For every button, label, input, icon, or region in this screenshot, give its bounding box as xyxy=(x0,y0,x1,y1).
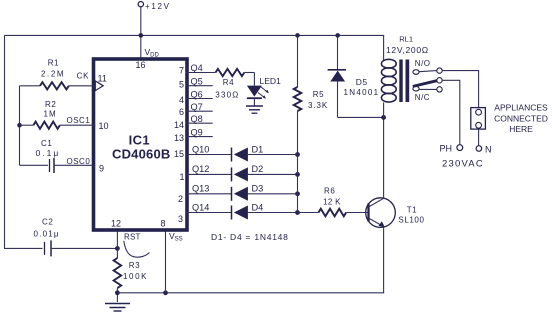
clock input triangle pin 11 xyxy=(77,71,107,90)
svg-text:10: 10 xyxy=(99,121,109,131)
svg-text:C1: C1 xyxy=(41,139,52,148)
capacitor C1 0.1u xyxy=(20,139,96,173)
svg-text:CK: CK xyxy=(77,71,90,80)
svg-text:1M: 1M xyxy=(44,110,57,119)
resistor R6 12K xyxy=(298,186,369,216)
svg-text:T1: T1 xyxy=(407,205,417,214)
capacitor C2 0.01u xyxy=(34,218,118,257)
node junction D1 bus xyxy=(295,152,300,157)
pin Q5 stub xyxy=(179,77,213,90)
pin Q14 wire xyxy=(178,202,232,224)
wire bus from rail to R5 xyxy=(297,35,299,87)
wire top supply rail xyxy=(5,34,385,36)
svg-text:R3: R3 xyxy=(129,261,140,270)
svg-text:N: N xyxy=(485,145,492,155)
node junction R3 bottom / ground rail xyxy=(115,290,120,295)
svg-text:APPLIANCES: APPLIANCES xyxy=(494,103,548,113)
node junction D2 bus xyxy=(295,172,300,177)
svg-text:OSC0: OSC0 xyxy=(67,157,91,166)
svg-text:R6: R6 xyxy=(324,186,335,195)
appliance socket box xyxy=(471,108,486,130)
svg-text:12V,200Ω: 12V,200Ω xyxy=(386,45,429,55)
node junction R5 bus on rail xyxy=(295,33,300,38)
svg-text:RST: RST xyxy=(124,233,141,242)
terminal N xyxy=(476,145,491,155)
node junction coil bottom xyxy=(381,115,386,120)
node junction D5 on rail xyxy=(335,33,340,38)
svg-text:CD4060B: CD4060B xyxy=(112,147,171,162)
wire bottom ground rail xyxy=(117,292,384,294)
svg-text:0.1μ: 0.1μ xyxy=(36,148,61,158)
svg-text:11: 11 xyxy=(98,74,107,84)
node junction C2 / RST xyxy=(115,246,120,251)
wire RST pin 12 down through junction to R3 xyxy=(116,230,118,258)
resistor R2 1M xyxy=(20,100,96,129)
pin Q6 stub xyxy=(179,89,213,105)
wire Vss pin 8 down to bottom rail xyxy=(165,230,167,293)
wire bus from R5 down to D4 row xyxy=(297,111,299,213)
wire socket to N terminal xyxy=(478,129,480,146)
ground symbol under R3 xyxy=(105,304,130,312)
svg-text:2: 2 xyxy=(178,194,183,204)
svg-text:SL100: SL100 xyxy=(398,215,424,224)
svg-text:230VAC: 230VAC xyxy=(442,159,484,170)
svg-text:4: 4 xyxy=(179,95,184,105)
svg-text:3.3K: 3.3K xyxy=(308,101,328,110)
pin Q8 stub xyxy=(174,114,213,130)
svg-text:D1- D4 = 1N4148: D1- D4 = 1N4148 xyxy=(211,232,289,242)
wire +12V terminal down to Vdd pin 16 xyxy=(140,7,142,59)
resistor R1 2.2M xyxy=(20,58,95,89)
wire R3 to bottom junction xyxy=(116,288,118,302)
wire R4 down to LED1 xyxy=(253,73,255,86)
node junction Vss on bottom rail xyxy=(163,290,168,295)
wire D5 bottom to coil/collector line xyxy=(338,116,385,118)
svg-text:D1: D1 xyxy=(252,144,264,154)
relay contact N/C xyxy=(413,86,442,101)
svg-text:R1: R1 xyxy=(48,58,59,67)
svg-text:1N4001: 1N4001 xyxy=(344,88,380,97)
svg-text:D5: D5 xyxy=(356,77,368,87)
svg-text:C2: C2 xyxy=(42,218,53,227)
resistor R5 3.3K xyxy=(294,87,328,111)
pin Q13 wire xyxy=(178,184,232,204)
svg-text:330Ω: 330Ω xyxy=(215,90,239,99)
pin Q7 stub xyxy=(179,102,213,117)
diode D2 xyxy=(232,164,298,182)
svg-text:Q13: Q13 xyxy=(192,184,209,194)
svg-text:R2: R2 xyxy=(45,100,56,109)
svg-text:Q6: Q6 xyxy=(191,89,203,99)
svg-text:15: 15 xyxy=(174,149,184,159)
wire N/O contact to appliance box xyxy=(442,71,478,108)
svg-text:Q9: Q9 xyxy=(191,127,203,137)
svg-text:D3: D3 xyxy=(252,184,264,194)
svg-text:8: 8 xyxy=(161,219,166,229)
+12V supply terminal xyxy=(138,1,171,10)
node junction D3 bus xyxy=(295,191,300,196)
diode D5 1N4001 xyxy=(328,35,380,117)
relay armature pole xyxy=(413,78,442,87)
svg-text:2.2M: 2.2M xyxy=(41,69,65,78)
wire left side vertical down to C2 xyxy=(5,35,43,248)
pin Q10 wire xyxy=(174,144,232,159)
ground under LED1 xyxy=(246,106,263,113)
svg-text:100K: 100K xyxy=(123,272,148,281)
wire R1/R2/C1 left vertical xyxy=(19,86,21,166)
svg-text:D2: D2 xyxy=(252,164,264,174)
diode D4 xyxy=(232,202,298,219)
svg-text:7: 7 xyxy=(179,66,184,76)
svg-text:Q5: Q5 xyxy=(191,77,203,87)
svg-text:3: 3 xyxy=(178,214,183,224)
svg-text:N/O: N/O xyxy=(415,59,431,68)
diode D3 xyxy=(232,184,298,201)
svg-text:N/C: N/C xyxy=(415,93,430,102)
svg-text:5: 5 xyxy=(179,80,184,90)
relay RL1 coil xyxy=(381,34,428,117)
svg-text:12: 12 xyxy=(111,219,121,229)
svg-text:Q10: Q10 xyxy=(192,144,209,154)
svg-text:13: 13 xyxy=(174,133,184,143)
op IC1 CD4060B body xyxy=(94,59,188,230)
svg-text:D4: D4 xyxy=(252,202,264,212)
svg-text:1: 1 xyxy=(179,172,184,182)
svg-text:CONNECTED: CONNECTED xyxy=(494,113,548,123)
svg-text:PH: PH xyxy=(440,144,453,154)
wire LED1 to ground xyxy=(253,98,255,106)
relay core bars xyxy=(399,60,409,103)
svg-text:Q7: Q7 xyxy=(191,102,203,112)
svg-text:9: 9 xyxy=(99,164,104,174)
svg-text:RL1: RL1 xyxy=(399,34,413,43)
svg-text:16: 16 xyxy=(136,60,146,70)
resistor R4 330ohm xyxy=(215,69,254,99)
label appliances connected here xyxy=(494,103,548,134)
svg-text:LED1: LED1 xyxy=(260,76,282,86)
node junction +12V on rail xyxy=(139,33,144,38)
svg-text:Q12: Q12 xyxy=(192,164,209,174)
wire collector up to relay coil bottom xyxy=(383,117,385,198)
svg-text:Q14: Q14 xyxy=(192,202,209,212)
terminal PH xyxy=(440,144,463,154)
svg-text:Q8: Q8 xyxy=(191,114,203,124)
relay contact N/O xyxy=(413,59,442,74)
svg-text:6: 6 xyxy=(179,107,184,117)
svg-text:Q4: Q4 xyxy=(191,63,203,73)
svg-text:12 K: 12 K xyxy=(323,198,341,207)
svg-text:OSC1: OSC1 xyxy=(67,116,91,125)
svg-text:IC1: IC1 xyxy=(129,132,150,147)
wire emitter down to bottom rail xyxy=(383,227,385,293)
reset pulse curve mark xyxy=(124,241,150,257)
svg-text:0.01μ: 0.01μ xyxy=(34,230,60,239)
LED1 xyxy=(247,76,281,99)
diode D1 xyxy=(232,144,298,161)
svg-text:+12V: +12V xyxy=(145,2,171,11)
node junction D4 bus R6 xyxy=(295,210,300,215)
svg-text:14: 14 xyxy=(174,120,184,130)
resistor R3 100K xyxy=(114,258,148,288)
node junction R2 xyxy=(17,123,22,128)
transistor T1 SL100 xyxy=(366,198,425,228)
svg-text:R4: R4 xyxy=(223,78,234,87)
svg-text:HERE: HERE xyxy=(509,124,533,134)
pin Q9 stub xyxy=(174,127,213,143)
svg-text:R5: R5 xyxy=(313,90,324,99)
pin Q12 wire xyxy=(179,164,231,182)
wire pole to PH terminal xyxy=(442,80,460,144)
pin Q4 wire and label xyxy=(179,63,216,76)
